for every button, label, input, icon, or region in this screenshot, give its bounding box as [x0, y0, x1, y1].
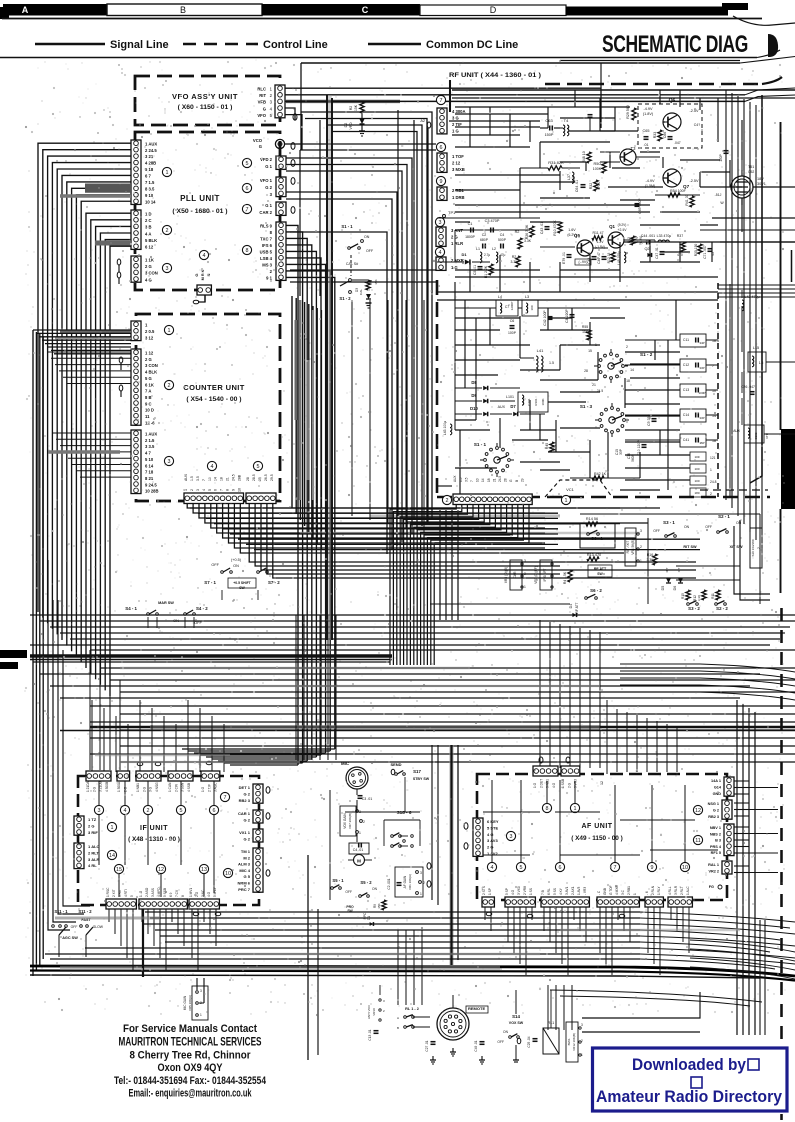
svg-text:2 1.5: 2 1.5 [145, 438, 155, 443]
svg-text:2: 2 [524, 572, 526, 576]
svg-text:3 21: 3 21 [145, 154, 154, 159]
svg-text:L101: L101 [506, 395, 514, 399]
S18 switch contacts [391, 835, 394, 838]
svg-text:R14 56: R14 56 [586, 517, 598, 521]
svg-text:S6 - 2: S6 - 2 [590, 588, 602, 593]
svg-text:3 12: 3 12 [145, 336, 154, 341]
AF bottom connector (-6 RLN RLY) [645, 897, 663, 907]
svg-text:RIT: RIT [665, 567, 669, 572]
svg-text:MAURITRON TECHNICAL SERVICES: MAURITRON TECHNICAL SERVICES [119, 1036, 262, 1049]
downloaded-by checkbox [691, 1077, 702, 1088]
svg-text:S1 - 1: S1 - 1 [341, 224, 353, 229]
thick trunk pair x327 [327, 95, 332, 640]
svg-text:AUX: AUX [733, 429, 741, 433]
svg-text:9 24.5: 9 24.5 [145, 482, 157, 487]
svg-text:S3 - 1: S3 - 1 [663, 520, 675, 525]
dashed section divider [717, 283, 719, 497]
svg-text:2 G: 2 G [88, 823, 94, 828]
VCO G terminal [275, 139, 284, 148]
svg-text:A2: A2 [420, 119, 425, 123]
svg-text:VR7 20K(B): VR7 20K(B) [348, 813, 352, 829]
svg-text:13: 13 [201, 867, 207, 873]
svg-text:5: 5 [208, 489, 212, 491]
counter circled ref 3 [164, 456, 173, 465]
svg-text:NSG 1: NSG 1 [708, 802, 719, 806]
counter connector 3 (10 pins) [131, 430, 141, 494]
svg-text:1 G: 1 G [201, 786, 205, 792]
AF bottom connector (RLL RLR RLT ALC) [668, 897, 692, 907]
svg-text:(1.8V): (1.8V) [643, 112, 654, 116]
svg-text:18: 18 [626, 379, 630, 383]
svg-text:(+0.5): (+0.5) [231, 558, 242, 562]
svg-text:3 VR3: 3 VR3 [574, 779, 578, 788]
IF top connector 1 (21DA G 21DB 300B) [86, 771, 111, 781]
svg-text:3 B: 3 B [145, 225, 152, 230]
svg-text:XIT SW: XIT SW [729, 545, 742, 549]
IF bottom connector (RSC XIT RIT RTI) [106, 899, 136, 909]
svg-text:XIT: XIT [677, 568, 681, 573]
svg-text:-2.5V: -2.5V [689, 179, 699, 183]
svg-text:1: 1 [565, 498, 568, 504]
RF circled ref 4 [435, 247, 444, 256]
svg-text:RF ATT: RF ATT [575, 602, 579, 613]
svg-text:4 300A: 4 300A [452, 109, 466, 114]
RF wires to right edge [720, 241, 795, 243]
IF top connector 3 (NB1 G C NSG) [136, 771, 161, 781]
svg-text:6: 6 [213, 808, 216, 814]
svg-text:10: 10 [208, 477, 212, 481]
RF unit inner dashed line [700, 489, 768, 491]
svg-text:G 2: G 2 [244, 837, 251, 842]
svg-text:2 T.IF: 2 T.IF [207, 784, 211, 792]
meter M circle [354, 855, 365, 866]
svg-text:G14: G14 [714, 785, 722, 789]
svg-text:4: 4 [211, 464, 214, 470]
svg-text:AGC SW: AGC SW [62, 936, 78, 940]
svg-text:18: 18 [487, 478, 491, 482]
counter bottom fan down-right [187, 504, 660, 508]
vertical bundle below RF bottom strip [439, 510, 441, 620]
svg-text:L33 470μ: L33 470μ [657, 234, 672, 238]
RF vertical feed from border [449, 90, 451, 112]
svg-text:12: 12 [600, 781, 604, 785]
grey smudge counter bundle 1 [295, 320, 298, 420]
right column wires [741, 306, 743, 352]
bottom horizontal bundle wires [145, 911, 640, 913]
svg-text:2: 2 [640, 545, 642, 549]
svg-text:2 RLT: 2 RLT [680, 887, 684, 895]
AF UNIT block (X49-1150-00) [477, 774, 727, 900]
svg-text:VR1 10K(A): VR1 10K(A) [408, 874, 412, 890]
svg-text:T51: T51 [748, 165, 754, 169]
page index bar B (white) [107, 4, 262, 16]
svg-text:CAL S#: CAL S# [346, 262, 358, 266]
svg-text:SW: SW [597, 572, 603, 576]
left edge scan marks [0, 650, 27, 658]
svg-text:RAL 1: RAL 1 [708, 863, 719, 867]
PLL UNIT block (X50-1680-01) [135, 132, 280, 290]
svg-text:24.8: 24.8 [710, 480, 717, 484]
svg-text:2: 2 [626, 345, 628, 349]
svg-text:CAL: CAL [359, 289, 363, 295]
svg-text:S10 163/180: S10 163/180 [751, 539, 755, 556]
svg-text:NBS 2: NBS 2 [710, 832, 721, 836]
grey smudge left bundle A [85, 184, 131, 189]
ground below D2 [359, 130, 365, 132]
svg-text:BIAS: BIAS [567, 1039, 571, 1046]
RF circled ref 9 [436, 176, 445, 185]
svg-text:2 RLT: 2 RLT [88, 850, 99, 855]
svg-text:S1 - 2: S1 - 2 [339, 296, 351, 301]
svg-text:3.5: 3.5 [196, 476, 200, 481]
svg-text:2: 2 [710, 492, 712, 496]
svg-text:2 G: 2 G [145, 357, 152, 362]
svg-text:D1: D1 [461, 252, 467, 257]
right side bundle down [736, 700, 738, 1035]
wires into counter connectors from left [33, 329, 131, 331]
svg-text:1: 1 [633, 893, 637, 895]
svg-text:S7 - 1: S7 - 1 [204, 580, 216, 585]
svg-text:3 AV3: 3 AV3 [487, 838, 498, 843]
svg-text:9 1: 9 1 [266, 276, 272, 281]
svg-text:AUX: AUX [453, 475, 457, 482]
vertical bundle grey smudges [299, 300, 302, 500]
wires around T3 [600, 151, 620, 153]
capacitor trimmer column C14 [680, 409, 706, 422]
wires filters to trimmers [625, 339, 680, 341]
page index bar A (black) [3, 4, 107, 16]
svg-text:G 1: G 1 [265, 164, 272, 169]
svg-text:1 MV1: 1 MV1 [189, 888, 193, 897]
svg-text:GNB: GNB [603, 888, 607, 895]
svg-text:4 SSB: 4 SSB [187, 783, 191, 792]
AF interior horizontal stubs [483, 811, 540, 813]
AF top connector (DET NB1 G) [533, 766, 558, 776]
svg-text:2 24.5: 2 24.5 [145, 148, 157, 153]
svg-text:C66: C66 [663, 132, 667, 139]
RF bottom connector strip [453, 494, 532, 505]
svg-text:RIT: RIT [259, 93, 266, 98]
svg-text:47μ: 47μ [500, 253, 506, 257]
left bundle grey smudge 3 [60, 330, 131, 334]
svg-text:C: C [362, 5, 369, 15]
svg-text:Signal Line: Signal Line [110, 39, 169, 51]
svg-text:S11 - 2: S11 - 2 [78, 909, 92, 914]
svg-text:1 G: 1 G [452, 129, 459, 134]
PLL connector 3 (4 pins) [131, 256, 141, 282]
svg-text:2 XIT: 2 XIT [112, 889, 116, 897]
svg-text:1 RSC: 1 RSC [106, 887, 110, 897]
IF top connector 5 (G TIF AGC) [201, 771, 220, 781]
wire VFO pin4 [285, 108, 295, 120]
svg-text:2: 2 [147, 808, 150, 814]
ground symbols bottom [432, 1056, 434, 1060]
RF right bundle horizontal joins [718, 284, 795, 286]
svg-text:5 STE: 5 STE [487, 825, 498, 830]
transistor Q5 [577, 240, 593, 256]
svg-text:C2: C2 [482, 233, 487, 237]
svg-text:D5: D5 [661, 586, 665, 591]
RF interior wires row 230-270 [455, 229, 530, 231]
svg-text:SEND: SEND [390, 762, 401, 767]
svg-text:3: 3 [420, 871, 422, 875]
svg-text:15K: 15K [377, 902, 381, 908]
lower trimmer boxes [690, 452, 706, 461]
RF right bundle vertical wires [725, 90, 727, 500]
svg-text:29: 29 [520, 478, 524, 482]
counter bottom connector B (5 pins) [246, 493, 276, 504]
svg-text:15: 15 [116, 867, 122, 873]
svg-text:MIC: MIC [341, 761, 350, 766]
svg-text:- VR3: - VR3 [583, 887, 587, 895]
PLL connector 7 (CAR) [276, 202, 286, 215]
IF right connector (CAR G) [253, 810, 263, 823]
svg-text:S11 - 1: S11 - 1 [54, 909, 68, 914]
svg-text:VR6 (D)(B): VR6 (D)(B) [504, 567, 508, 583]
svg-text:680P: 680P [480, 238, 489, 242]
legend signal line sample [35, 43, 105, 46]
AF GAIN pot box [395, 867, 423, 897]
svg-text:MS 3: MS 3 [262, 263, 272, 268]
svg-text:L1: L1 [476, 247, 480, 251]
svg-text:S4 - 2: S4 - 2 [196, 606, 208, 611]
mid bundle vertical drops left [89, 650, 91, 770]
svg-text:TXC 7: TXC 7 [260, 237, 273, 242]
mixer tube [731, 176, 753, 198]
svg-text:Q6: Q6 [669, 98, 676, 104]
svg-text:L43 100μ: L43 100μ [443, 421, 447, 435]
svg-text:VOX GAIN: VOX GAIN [343, 813, 347, 829]
IF unit interior stub wires [98, 781, 100, 805]
svg-text:30V1: 30V1 [757, 182, 766, 186]
svg-text:C7: C7 [505, 305, 509, 309]
svg-text:D: D [490, 5, 497, 15]
svg-text:10: 10 [225, 871, 231, 877]
downloaded-by box border [593, 1048, 788, 1111]
svg-text:21: 21 [226, 477, 230, 481]
svg-text:3: 3 [166, 266, 169, 272]
oval contacts below AF [486, 912, 492, 915]
svg-text:150P: 150P [545, 133, 554, 137]
svg-text:5: 5 [180, 808, 183, 814]
svg-text:7 B: 7 B [541, 890, 545, 895]
svg-text:R55: R55 [582, 325, 588, 329]
svg-text:1.6V: 1.6V [568, 228, 576, 232]
svg-text:1: 1 [359, 831, 361, 835]
svg-text:C44 .001: C44 .001 [641, 234, 655, 238]
AF bottom connector (B RL SS KY AV1 AX1 AV3 VR3) [541, 897, 589, 907]
mid horizontal bundle wires [30, 614, 795, 616]
svg-text:100: 100 [694, 467, 699, 471]
svg-text:4 28B: 4 28B [145, 161, 156, 166]
svg-text:L2: L2 [492, 247, 496, 251]
svg-text:33P: 33P [619, 449, 623, 455]
svg-text:VR2 2: VR2 2 [708, 870, 719, 874]
svg-text:6: 6 [559, 865, 562, 871]
svg-text:4: 4 [491, 865, 494, 871]
svg-text:14: 14 [481, 478, 485, 482]
svg-text:7: 7 [224, 795, 227, 801]
RF top supply wire 1 [452, 89, 795, 91]
RF circled ref 3 [435, 217, 444, 226]
svg-text:G 2: G 2 [265, 185, 272, 190]
svg-text:VR5 10K(A): VR5 10K(A) [188, 995, 192, 1011]
PLL circled ref 5 [242, 158, 251, 167]
rule under legend [0, 57, 757, 59]
svg-text:D6: D6 [673, 586, 677, 591]
svg-text:VX1 1: VX1 1 [239, 830, 251, 835]
svg-text:3 VX0: 3 VX0 [517, 886, 521, 895]
svg-text:10 14: 10 14 [145, 199, 156, 204]
svg-text:1 AUX: 1 AUX [145, 432, 157, 437]
svg-text:100K: 100K [541, 398, 545, 405]
svg-text:-4.9V: -4.9V [643, 107, 653, 111]
RF lower left entry wires [437, 299, 718, 301]
svg-text:26.5: 26.5 [264, 474, 268, 481]
svg-text:T4: T4 [564, 118, 569, 123]
pot RIT/XIT VR4 5K(B) [625, 528, 636, 566]
svg-text:2 RLN: 2 RLN [651, 885, 655, 895]
grey smudge left bundle B [48, 450, 120, 454]
switch contact A2 [427, 122, 431, 128]
svg-text:RF ATT: RF ATT [594, 567, 607, 571]
svg-text:OFF: OFF [366, 249, 374, 253]
svg-text:33P: 33P [699, 366, 704, 370]
svg-text:3 CON: 3 CON [145, 363, 158, 368]
svg-text:28: 28 [246, 477, 250, 481]
oval contacts left of AF [464, 823, 468, 829]
svg-text:SLOW: SLOW [93, 925, 104, 929]
RF unit left dashed border [436, 280, 439, 497]
svg-text:1.5: 1.5 [759, 361, 764, 365]
svg-text:VFO: VFO [257, 113, 266, 118]
AF right connector (NSG G RB2) [722, 800, 732, 819]
capacitor C4 .01 box [349, 843, 369, 854]
svg-text:G TOF: G TOF [609, 885, 613, 895]
PLL connector 2 (6 pins) [131, 210, 141, 249]
svg-text:PRC 7: PRC 7 [238, 887, 251, 892]
svg-text:1: 1 [166, 170, 169, 176]
svg-text:14: 14 [630, 368, 634, 372]
IF bottom vertical drops [108, 909, 110, 922]
svg-text:5 10: 5 10 [145, 457, 154, 462]
svg-text:3 ALR: 3 ALR [88, 857, 100, 862]
bottom right curving wires [690, 940, 795, 952]
svg-text:3: 3 [640, 529, 642, 533]
svg-text:9 10: 9 10 [145, 193, 154, 198]
svg-text:7: 7 [470, 480, 474, 482]
svg-text:AF GAIN: AF GAIN [403, 875, 407, 888]
svg-text:ON: ON [364, 235, 370, 239]
svg-text:CAR 2: CAR 2 [259, 210, 272, 215]
RF lower mesh vertical [464, 300, 466, 388]
svg-text:8 B: 8 B [145, 395, 152, 400]
svg-text:ON: ON [503, 1030, 509, 1034]
svg-text:2 G: 2 G [567, 782, 571, 788]
svg-text:M R K: M R K [201, 269, 205, 280]
svg-text:470K: 470K [597, 181, 601, 190]
svg-text:1.5: 1.5 [190, 476, 194, 481]
svg-text:SW: SW [239, 586, 245, 590]
svg-text:4 G: 4 G [511, 889, 515, 895]
right edge scan line upper [780, 122, 782, 430]
svg-text:AUX: AUX [498, 405, 506, 409]
grey smudge under counter [370, 515, 560, 518]
svg-text:1 G: 1 G [533, 782, 537, 788]
svg-text:10 28B: 10 28B [145, 489, 159, 494]
svg-text:1800P: 1800P [465, 235, 476, 239]
svg-text:+2.4V: +2.4V [618, 228, 628, 232]
svg-text:6 12: 6 12 [145, 245, 154, 250]
horizontal bundle above IF/AF units [90, 705, 795, 707]
svg-text:S5 - 2: S5 - 2 [360, 880, 372, 885]
svg-text:G 2: G 2 [244, 791, 251, 796]
svg-text:RIT SW: RIT SW [683, 545, 697, 549]
pot VR6 CAR vertical [510, 560, 522, 590]
RF unit bottom dashed border [437, 496, 770, 499]
svg-text:R2: R2 [349, 106, 353, 110]
svg-text:1: 1 [710, 468, 712, 472]
AF circled ref 11 [693, 835, 702, 844]
svg-text:SCHEMATIC DIAG: SCHEMATIC DIAG [602, 31, 748, 58]
vertical feeds IF top [91, 700, 93, 772]
svg-text:C4?: C4? [694, 123, 700, 127]
svg-text:2: 2 [423, 881, 425, 885]
svg-text:D10: D10 [470, 406, 478, 411]
svg-text:4 A: 4 A [145, 231, 151, 236]
svg-text:11: 11 [145, 414, 150, 419]
svg-text:S14: S14 [512, 1014, 520, 1019]
svg-text:C47 .01: C47 .01 [655, 247, 659, 259]
svg-text:1.5: 1.5 [549, 361, 554, 365]
lower-left frame wires around IF unit [48, 560, 70, 930]
svg-text:28B: 28B [237, 474, 241, 481]
extra wires top right corner [301, 62, 740, 64]
svg-text:10 D: 10 D [145, 408, 154, 413]
svg-text:100P: 100P [698, 391, 705, 395]
svg-text:VOX SW: VOX SW [509, 1021, 524, 1025]
svg-text:R1 2.2K: R1 2.2K [484, 265, 488, 278]
svg-text:OFF: OFF [653, 529, 660, 533]
RF connector (TOF 12 MXB) [437, 153, 447, 172]
svg-text:8: 8 [246, 248, 249, 254]
svg-text:8: 8 [181, 895, 185, 897]
IF circled refs bottom row [114, 864, 123, 873]
svg-text:-4.9V: -4.9V [645, 179, 655, 183]
svg-text:1 SSB: 1 SSB [561, 779, 565, 788]
REMOTE connector [437, 1008, 469, 1040]
svg-text:15P: 15P [699, 441, 704, 445]
wires mic area [329, 790, 331, 900]
RF connector (ANT G RLR) [436, 227, 446, 246]
MIC connector [346, 767, 368, 789]
AF right connector (RAL VR2) [722, 861, 732, 874]
svg-text:9 C: 9 C [145, 401, 152, 406]
svg-text:AUX: AUX [184, 473, 188, 481]
svg-text:2 G: 2 G [145, 264, 152, 269]
svg-text:2: 2 [166, 228, 169, 234]
svg-text:-51J: -51J [715, 193, 722, 197]
svg-text:G 5: G 5 [244, 874, 251, 879]
svg-text:7 1.5: 7 1.5 [145, 180, 155, 185]
vertical bundle x350-430 [351, 300, 353, 516]
svg-text:4 7: 4 7 [145, 451, 151, 456]
svg-text:C3 .01: C3 .01 [362, 797, 373, 801]
left edge mark [0, 7, 9, 19]
left frame wires entering IF unit [58, 600, 84, 914]
PLL circled ref 2 [162, 225, 171, 234]
switch contacts left of counter connector 2 [119, 357, 123, 363]
